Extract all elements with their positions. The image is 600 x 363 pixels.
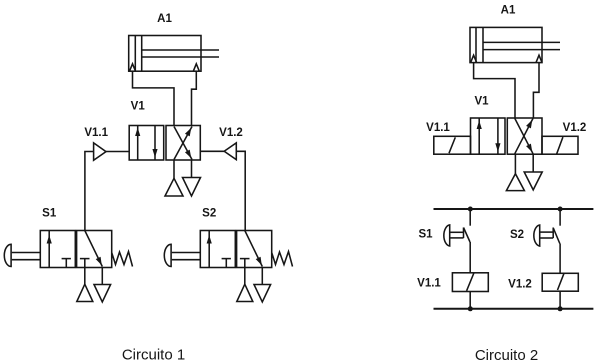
junction bottom left xyxy=(468,306,473,311)
junction top right xyxy=(558,207,563,212)
valve S1 blocked port supply xyxy=(80,259,90,268)
wire S2 contact to coil V1.2 xyxy=(559,244,561,274)
valve V1 right exhaust triangle down (circuit 2) xyxy=(524,172,542,190)
wire cylinder right port to valve V1 port 2 xyxy=(192,71,197,125)
wire S2 supply stub xyxy=(244,268,246,285)
switch S2 plunger xyxy=(540,228,553,239)
svg-text:A1: A1 xyxy=(157,13,172,25)
valve S1 left square xyxy=(40,231,75,268)
wire S1 contact to coil V1.1 xyxy=(469,242,471,273)
coil V1.1 box xyxy=(452,273,488,292)
svg-text:V1.1: V1.1 xyxy=(84,127,108,139)
switch S1 contact blade xyxy=(464,228,471,243)
pilot signal V1.1 triangle xyxy=(94,143,106,160)
wire cylinder left port to valve (circuit 2) xyxy=(474,63,515,118)
wire S1 exhaust stub xyxy=(101,268,103,285)
valve S1 up arrow xyxy=(47,231,52,268)
valve V1 crossed path down-right (circuit 2) xyxy=(515,118,535,153)
coil V1.1 diagonal xyxy=(467,273,474,291)
valve V1 left exhaust triangle up (circuit 2) xyxy=(506,174,524,191)
S2 supply source triangle (up) xyxy=(237,284,253,301)
wire coil V1.2 to bottom rail xyxy=(559,291,561,309)
valve V1 left square xyxy=(129,126,164,161)
svg-text:A1: A1 xyxy=(501,5,516,17)
valve V1 right exhaust triangle (down) xyxy=(183,178,201,197)
valve V1 crossed path down-right xyxy=(174,127,194,160)
wire S1 to V1.1 triangle xyxy=(85,152,94,231)
valve V1 left square down arrow xyxy=(152,126,157,161)
wire cylinder right port to valve (circuit 2) xyxy=(533,63,539,118)
valve S2 pushbutton plunger xyxy=(172,253,201,260)
switch S1 button head xyxy=(444,225,450,246)
valve S1 blocked port left xyxy=(62,259,71,268)
valve V1 crossed path up-right xyxy=(174,127,194,160)
valve S2 left square xyxy=(200,231,235,268)
switch S2 contact blade xyxy=(553,228,560,244)
valve S1 right square xyxy=(77,231,112,268)
valve S1 pushbutton plunger xyxy=(12,253,41,260)
svg-text:V1: V1 xyxy=(474,96,489,108)
wire S2 exhaust stub xyxy=(261,268,263,285)
wire V1.1 triangle to valve V1 xyxy=(106,151,129,153)
cylinder A1 right port arrow xyxy=(193,64,199,71)
valve S1 pushbutton head xyxy=(4,244,11,266)
svg-text:V1.2: V1.2 xyxy=(508,279,532,291)
solenoid V1.2 box xyxy=(542,136,578,154)
svg-text:Circuito 2: Circuito 2 xyxy=(475,347,538,363)
valve S2 transfer path arrow xyxy=(245,231,264,267)
wire valve V1 to right exhaust xyxy=(191,160,193,178)
svg-text:V1.1: V1.1 xyxy=(426,122,450,134)
svg-text:V1: V1 xyxy=(131,101,146,113)
svg-text:S1: S1 xyxy=(418,229,433,241)
S2 exhaust triangle (down) xyxy=(254,285,271,303)
valve S2 blocked port left xyxy=(222,259,231,268)
solenoid V1.2 diagonal xyxy=(557,137,563,154)
svg-text:S2: S2 xyxy=(202,208,216,220)
wire cylinder left port to valve V1 port 4 xyxy=(133,71,175,125)
valve V1 right square xyxy=(166,126,200,161)
wire top rail to S2 contact xyxy=(559,209,561,226)
valve V1 left square up arrow xyxy=(135,126,140,161)
valve V1 right square (circuit 2) xyxy=(507,118,542,154)
cylinder A1 body (circuit 2) xyxy=(470,27,542,62)
valve V1 left exhaust triangle (up) xyxy=(165,178,183,196)
cylinder A1 piston rod xyxy=(142,50,219,57)
valve V1 up arrow (circuit 2) xyxy=(477,118,482,154)
svg-text:Circuito 1: Circuito 1 xyxy=(122,347,185,363)
wire valve to left exhaust (circuit 2) xyxy=(514,154,516,174)
switch S2 button head xyxy=(534,225,540,246)
valve S1 transfer path arrow xyxy=(85,231,104,267)
wire top rail to S1 contact xyxy=(469,209,471,226)
wire coil V1.1 to bottom rail xyxy=(469,292,471,309)
cylinder A1 left port arrow xyxy=(130,64,136,71)
valve S2 return spring xyxy=(272,252,293,267)
cylinder right port arrow (circuit 2) xyxy=(536,55,542,62)
solenoid V1.1 diagonal xyxy=(449,137,455,153)
valve V1 crossed path up-right (circuit 2) xyxy=(515,118,535,153)
cylinder A1 piston (circuit 2) xyxy=(476,27,483,62)
cylinder A1 piston xyxy=(135,36,141,72)
svg-text:V1.2: V1.2 xyxy=(219,127,243,139)
solenoid V1.1 box xyxy=(434,136,471,154)
cylinder A1 piston rod (circuit 2) xyxy=(483,42,560,49)
svg-text:V1.2: V1.2 xyxy=(563,122,587,134)
junction top left xyxy=(468,207,473,212)
valve S2 blocked port supply xyxy=(240,259,250,268)
coil V1.2 box xyxy=(542,273,578,291)
wire S2 to V1.2 triangle xyxy=(236,151,245,230)
S1 exhaust triangle (down) xyxy=(94,285,111,303)
S1 supply source triangle (up) xyxy=(77,284,93,301)
svg-text:S1: S1 xyxy=(42,208,57,220)
valve S2 pushbutton head xyxy=(164,244,171,266)
svg-text:V1.1: V1.1 xyxy=(417,278,441,290)
wire S1 supply stub xyxy=(84,268,86,285)
valve S2 up arrow xyxy=(207,231,212,268)
cylinder left port arrow (circuit 2) xyxy=(471,55,477,62)
switch S1 plunger xyxy=(450,228,463,239)
wire valve V1 to V1.2 triangle xyxy=(200,150,224,152)
valve V1 left square (circuit 2) xyxy=(471,118,506,154)
svg-text:S2: S2 xyxy=(510,229,524,241)
ladder bottom rail xyxy=(434,308,594,310)
wire valve V1 to left exhaust xyxy=(173,160,175,178)
junction bottom right xyxy=(558,306,563,311)
valve S2 right square xyxy=(237,231,272,268)
coil V1.2 diagonal xyxy=(558,273,565,290)
valve V1 down arrow (circuit 2) xyxy=(495,118,500,154)
cylinder A1 body xyxy=(129,36,201,72)
valve S1 return spring xyxy=(112,252,133,267)
pilot signal V1.2 triangle xyxy=(224,143,236,160)
wire valve to right exhaust (circuit 2) xyxy=(532,154,534,172)
ladder top rail xyxy=(434,208,594,210)
